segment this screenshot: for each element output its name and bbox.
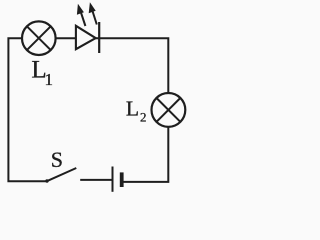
- LED light-emission arrow 2: [89, 2, 97, 24]
- battery negative plate (short thick): [120, 172, 124, 187]
- wire L1 to LED: [56, 37, 76, 39]
- battery positive plate (long): [112, 167, 114, 192]
- svg-text:2: 2: [140, 109, 147, 124]
- LED triangle (anode): [76, 26, 96, 49]
- wire battery to switch: [80, 179, 111, 181]
- wire LED to top-right corner and down: [95, 38, 168, 93]
- wire right side down to bottom-right corner: [123, 127, 168, 182]
- svg-text:L: L: [126, 96, 139, 120]
- svg-text:1: 1: [45, 70, 54, 89]
- wire left side and bottom-left: [8, 38, 47, 181]
- lamp L2: [152, 93, 186, 127]
- svg-text:S: S: [51, 147, 63, 172]
- LED cathode bar: [98, 22, 100, 53]
- lamp L1: [22, 21, 56, 55]
- switch S blade: [47, 168, 77, 181]
- switch pivot dot: [45, 179, 48, 182]
- LED light-emission arrow 1: [77, 4, 86, 26]
